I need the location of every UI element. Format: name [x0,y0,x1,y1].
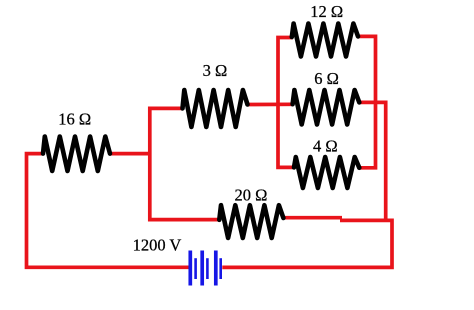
battery B1 long plate 1 [188,251,192,286]
battery B1 short plate 1 [194,258,197,279]
wire: left rail of parallel block (12ohm left corner down to 4ohm left corner) [278,38,295,168]
battery B1 long plate 2 [200,251,204,286]
wire: 6ohm right end jog to far-right vertical going down [358,102,385,219]
svg-text:4 Ω: 4 Ω [313,137,338,156]
wire: 3ohm right end to 6ohm left end (crosses left rail) [247,102,294,106]
resistor R4 6 ohm [293,90,360,125]
battery B1 long plate 3 [214,251,218,286]
resistor R1 16 ohm [43,137,110,172]
svg-text:6 Ω: 6 Ω [314,69,339,88]
svg-text:3 Ω: 3 Ω [203,61,228,80]
svg-text:16 Ω: 16 Ω [58,110,91,129]
wire: bottom right run - battery right, bottom wire, right vertical, upper jog [222,220,392,267]
svg-text:12 Ω: 12 Ω [310,2,343,21]
resistor R3 12 ohm [292,24,358,57]
resistor R5 4 ohm [294,157,359,188]
wire: right rail of parallel block (12ohm right corner down to 4ohm right corner) [357,36,376,167]
resistor R6 20 ohm [219,205,283,238]
svg-text:20 Ω: 20 Ω [235,186,268,205]
wire: left branch - 16ohm left end, left vertical, bottom wire to battery [27,154,190,268]
wire: mid vertical with top corner to 3ohm and bottom corner to 20ohm [150,108,221,219]
wire: 20ohm right end horizontal segment [282,216,342,220]
battery B1 short plate 2 [206,258,209,279]
svg-text:1200 V: 1200 V [133,235,182,254]
wire: 16ohm right end to mid vertical [109,152,152,156]
battery B1 short plate 3 [219,258,222,279]
resistor R2 3 ohm [183,90,248,127]
